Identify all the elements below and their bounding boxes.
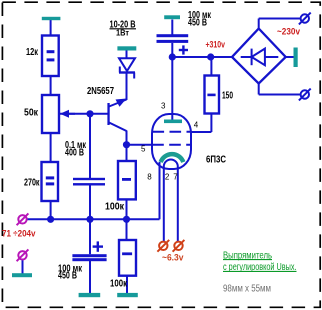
svg-text:71 ÷204v: 71 ÷204v (2, 229, 36, 239)
svg-text:~230v: ~230v (277, 27, 300, 37)
svg-text:8: 8 (147, 172, 152, 181)
svg-text:100к: 100к (105, 202, 125, 213)
svg-text:1Вт: 1Вт (116, 28, 129, 38)
svg-text:100к: 100к (110, 278, 128, 289)
svg-text:4: 4 (194, 121, 199, 130)
svg-text:2N5657: 2N5657 (87, 86, 114, 97)
svg-text:400 В: 400 В (65, 148, 84, 159)
svg-text:450 В: 450 В (58, 271, 77, 282)
svg-text:98мм x 55мм: 98мм x 55мм (223, 284, 271, 295)
svg-text:2: 2 (165, 172, 170, 181)
svg-text:450 В: 450 В (188, 18, 207, 29)
svg-text:+310v: +310v (206, 40, 226, 50)
svg-text:7: 7 (173, 172, 178, 181)
svg-text:~6.3v: ~6.3v (162, 253, 184, 263)
svg-text:50к: 50к (24, 108, 39, 119)
svg-text:270к: 270к (24, 178, 40, 189)
svg-text:12к: 12к (26, 47, 39, 58)
svg-text:5: 5 (141, 144, 146, 153)
svg-text:150: 150 (222, 91, 233, 102)
svg-text:6П3С: 6П3С (206, 155, 226, 166)
svg-text:3: 3 (161, 102, 166, 111)
